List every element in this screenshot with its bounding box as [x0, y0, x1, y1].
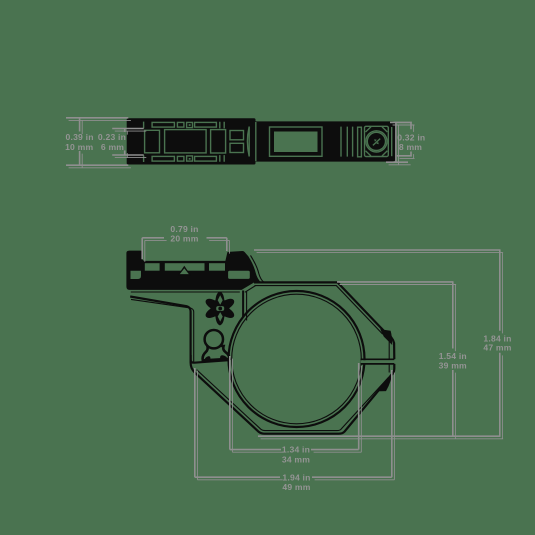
- shared bottom line: [261, 438, 504, 440]
- top strip rects: [152, 122, 174, 127]
- 1.34in bracket: [230, 356, 359, 450]
- 1.34in bracket: [232, 359, 361, 453]
- left dash pair: [143, 122, 145, 162]
- svg-text:47 mm: 47 mm: [483, 343, 511, 353]
- scope bore circles: [229, 291, 365, 427]
- 1.54in: [337, 282, 454, 437]
- svg-text:1.34 in: 1.34 in: [282, 445, 310, 455]
- 1.84in: rail top extension & right vline: [257, 253, 504, 439]
- 0.32in bracket right: [389, 125, 415, 165]
- rail plate body: [127, 118, 256, 164]
- 1.94in bracket: [195, 368, 392, 477]
- section line: [255, 122, 257, 161]
- keyhole circle: [205, 330, 223, 348]
- bottom strip rects: [152, 156, 174, 161]
- clamp slot right: [361, 360, 394, 363]
- knob screw symbol: [373, 139, 380, 146]
- keyhole feet: [204, 356, 211, 361]
- ribs: [341, 127, 353, 157]
- arm bottom edge band: [191, 355, 229, 363]
- svg-text:49 mm: 49 mm: [282, 482, 310, 492]
- rail slot triangle: [178, 266, 191, 275]
- 0.79in bracket: [142, 238, 227, 259]
- pocket right verticals: [242, 291, 244, 318]
- lens sliver: [247, 127, 249, 157]
- svg-text:34 mm: 34 mm: [282, 455, 310, 465]
- inner offset contour: [131, 286, 389, 431]
- svg-text:6 mm: 6 mm: [101, 142, 124, 152]
- window outline: [270, 127, 323, 156]
- svg-text:0.39 in: 0.39 in: [66, 132, 94, 142]
- 0.79in bracket: [145, 240, 230, 261]
- 1.54in: [340, 285, 457, 440]
- svg-text:0.23 in: 0.23 in: [98, 132, 126, 142]
- 1.84in: rail top extension & right vline: [254, 250, 501, 436]
- clamp green cutouts: [131, 263, 250, 279]
- svg-text:1.94 in: 1.94 in: [282, 472, 310, 482]
- boss wedge top: [380, 329, 392, 345]
- keyhole bell: [203, 345, 230, 360]
- svg-text:10 mm: 10 mm: [65, 142, 93, 152]
- svg-text:1.54 in: 1.54 in: [439, 351, 467, 361]
- clamp black body: [126, 251, 260, 290]
- svg-text:20 mm: 20 mm: [170, 234, 198, 244]
- tiny square dots: [189, 124, 191, 126]
- 0.23in bracket: [115, 131, 147, 158]
- stacked small rects: [230, 131, 244, 140]
- 1.94in bracket: [197, 371, 394, 480]
- pocket offset line under base: [131, 285, 256, 292]
- middle big rects: [145, 130, 160, 153]
- right body: [256, 121, 397, 161]
- knob plate: [365, 126, 389, 156]
- shared bottom line: [258, 435, 501, 437]
- end line: [391, 127, 393, 156]
- 0.39in bracket: [66, 118, 128, 165]
- svg-text:0.79 in: 0.79 in: [170, 224, 198, 234]
- ring outer octagon: [130, 282, 394, 433]
- 0.32in bracket right: [386, 122, 412, 162]
- svg-text:39 mm: 39 mm: [439, 361, 467, 371]
- window inner green fill: [274, 132, 318, 153]
- clamp right outer offset curve: [251, 255, 264, 282]
- star knob: [206, 291, 235, 325]
- boss wedge bottom: [379, 374, 392, 392]
- 0.39in bracket: [69, 120, 131, 167]
- 0.23in bracket: [112, 129, 144, 156]
- svg-text:8 mm: 8 mm: [399, 142, 422, 152]
